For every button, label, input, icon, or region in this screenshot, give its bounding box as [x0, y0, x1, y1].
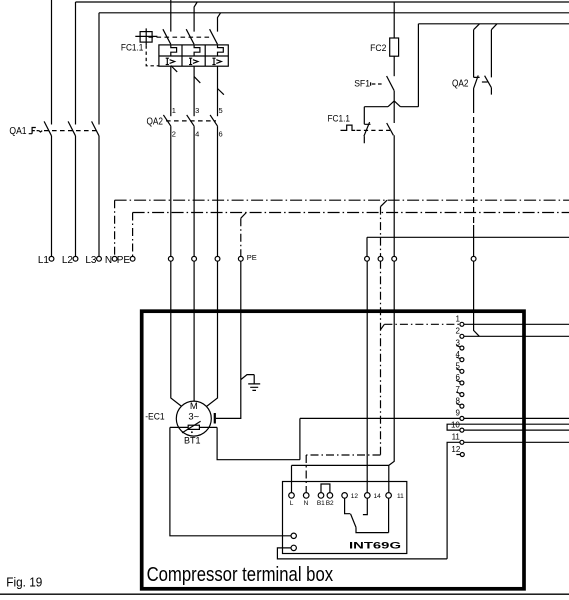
terminal PE2	[238, 256, 243, 261]
box terminal 10 loop	[447, 424, 569, 430]
svg-text:4: 4	[195, 129, 199, 138]
contactor QA2 blade 1	[163, 115, 170, 126]
bus L3 top	[99, 12, 569, 14]
wire PE drop	[132, 213, 134, 257]
svg-text:3: 3	[195, 106, 199, 115]
INT69G terminal L	[289, 493, 295, 499]
compressor terminal box outline	[142, 311, 524, 589]
box terminal numbers	[451, 315, 461, 454]
I> labels	[166, 58, 222, 64]
box terminal 2	[460, 334, 464, 338]
svg-text:-EC1: -EC1	[145, 411, 165, 422]
contactor QA2 blade 2	[187, 115, 194, 126]
INT69G terminal N	[303, 493, 309, 499]
N wire to INT69G N	[306, 454, 380, 456]
box terminal 9	[460, 416, 464, 420]
wire SF1 bottom node	[364, 24, 418, 107]
FC1.1 thermal hook 2	[194, 45, 200, 56]
terminal circles row	[49, 256, 476, 261]
svg-text:PE: PE	[117, 255, 131, 266]
svg-text:QA1: QA1	[9, 126, 26, 137]
box terminal 4	[460, 358, 464, 362]
svg-text:6: 6	[455, 373, 460, 382]
box terminal 1	[460, 322, 464, 326]
FC1.1 aux trip indicator step	[341, 125, 356, 130]
breaker FC1.1 blade 2	[186, 29, 194, 44]
terminal L1	[49, 256, 54, 261]
svg-text:4: 4	[455, 350, 460, 359]
svg-text:QA2: QA2	[452, 78, 469, 89]
svg-text:12: 12	[451, 445, 460, 454]
svg-text:2: 2	[455, 327, 460, 336]
INT69G terminal 14	[365, 493, 371, 499]
svg-text:L3: L3	[85, 255, 97, 266]
INT69G sensor input 1	[291, 533, 296, 538]
terminal PE	[130, 256, 135, 261]
QA1 mechanical link dashed	[44, 130, 97, 132]
ground symbol	[248, 384, 260, 391]
wire PE to terminal dash-dot	[240, 218, 242, 257]
contactor QA2 blade 3	[210, 115, 217, 126]
svg-text:Compressor terminal box: Compressor terminal box	[147, 564, 334, 586]
breaker FC1.1 blade 1	[163, 29, 171, 44]
terminal 14net	[365, 256, 370, 261]
wire L1 vertical	[51, 0, 53, 257]
fuse FC2	[393, 2, 395, 38]
svg-text:3: 3	[455, 338, 460, 347]
INT69G sensor loop to terminal 11	[277, 442, 460, 559]
svg-text:BT1: BT1	[184, 436, 201, 446]
svg-text:FC2: FC2	[370, 43, 386, 53]
B1-B2 bridge	[321, 484, 330, 492]
FC1.1 manual operator crossed square	[140, 32, 152, 42]
wire FC1.1 to QA2 pole2	[193, 66, 195, 116]
svg-text:QA2: QA2	[147, 116, 164, 127]
contact QA2 aux left	[474, 24, 480, 107]
QA2 dashed link	[166, 120, 216, 122]
svg-text:2: 2	[172, 129, 176, 138]
svg-text:14: 14	[374, 493, 382, 500]
FC1.1 breaker dashed link	[149, 36, 212, 38]
FC1.1 aux dashed link	[357, 129, 391, 131]
wire N dash-dot inside box	[380, 261, 382, 455]
svg-text:8: 8	[455, 396, 460, 405]
svg-text:L2: L2	[62, 255, 74, 266]
svg-text:10: 10	[451, 420, 460, 429]
ground branch	[241, 375, 254, 384]
wire PE into box	[216, 261, 241, 419]
box terminal 3	[460, 346, 464, 350]
terminal Nnet	[378, 256, 383, 261]
svg-text:7: 7	[455, 385, 460, 394]
box terminal 2 wire out	[464, 335, 569, 337]
breaker FC1.1 blade 3	[210, 29, 218, 44]
terminal 12 stub	[456, 454, 460, 456]
wire FC1.1 pole1 from top	[170, 0, 172, 32]
BT1 left wire to INT69G sensor	[170, 427, 292, 535]
wire FC1.1 to QA2 pole3	[217, 66, 219, 116]
svg-text:9: 9	[455, 409, 460, 418]
terminal N	[112, 256, 117, 261]
contact FC1.1 aux NC left	[364, 107, 371, 144]
BT1 right wire to box terminal 9	[199, 418, 460, 459]
box terminal 11	[460, 440, 464, 444]
svg-text:3~: 3~	[188, 412, 199, 423]
svg-text:L: L	[290, 500, 294, 507]
wire FC1.1-right into box to L and 11	[292, 261, 395, 493]
svg-text:FC1.1: FC1.1	[121, 42, 143, 53]
terminal L3	[97, 256, 102, 261]
svg-text:11: 11	[452, 433, 461, 442]
wire terminal14 net horizontal	[367, 237, 569, 256]
SF1 dashed link	[370, 82, 372, 85]
wire FC1.1 pole3 from bus L3	[218, 13, 221, 32]
PE branch jog to motor PE	[241, 213, 247, 219]
trip stroke pole3	[218, 89, 224, 95]
box terminal 10	[460, 428, 464, 432]
bus N dash-dot	[115, 199, 569, 201]
svg-text:5: 5	[455, 362, 460, 371]
trip stroke pole1	[171, 66, 177, 72]
svg-text:SF1: SF1	[354, 78, 370, 89]
switch QA1 pole 3 blade	[92, 121, 99, 135]
box terminal 5	[460, 369, 464, 373]
wire QA2 pole2 down	[193, 126, 195, 257]
wire FC1.1 pole2 from bus L2	[194, 2, 197, 32]
svg-text:PE: PE	[247, 253, 257, 262]
spare terminal stubs 3-8	[456, 345, 460, 405]
wire L2 motor	[193, 261, 195, 401]
box terminal 7	[460, 393, 464, 397]
svg-text:M: M	[190, 401, 198, 412]
FC1.1 operator dashed drop	[146, 45, 159, 66]
terminal U	[168, 256, 173, 261]
wire L2 vertical	[75, 2, 77, 257]
QA2 aux link dash	[482, 81, 488, 83]
bus L2 top	[76, 1, 569, 3]
wire FC1.1 to QA2 pole1	[170, 66, 172, 116]
wire L3 motor	[207, 261, 218, 407]
FC1.1 thermal hook 3	[218, 45, 224, 56]
svg-text:12: 12	[351, 493, 359, 500]
svg-text:N: N	[304, 500, 309, 507]
wire L1 motor	[171, 261, 182, 407]
terminal W	[215, 256, 220, 261]
svg-text:6: 6	[219, 129, 223, 138]
INT69G terminal 11	[386, 493, 392, 499]
FC1.1 relay box	[159, 45, 228, 66]
wire QA2 pole1 down	[170, 126, 172, 257]
motor frame bar	[214, 413, 216, 424]
thermistor BT1	[188, 425, 199, 429]
svg-text:B1: B1	[317, 500, 325, 507]
svg-text:B2: B2	[326, 500, 334, 507]
INT69G internal contact	[345, 498, 389, 533]
switch QA1 pole 2 blade	[68, 121, 75, 135]
contact FC1.1 aux NO right	[387, 101, 395, 257]
footer rule	[0, 593, 569, 595]
svg-text:FC1.1: FC1.1	[328, 113, 351, 124]
wire QA2 pole3 down	[217, 126, 219, 257]
N branch to box terminal 1	[381, 324, 385, 329]
INT69G terminal B1	[318, 493, 324, 499]
INT69G terminal B2	[327, 493, 333, 499]
QA1 operator symbol F	[29, 128, 43, 134]
box terminal 12	[460, 453, 464, 457]
INT69G labels	[290, 493, 404, 507]
svg-text:11: 11	[397, 493, 404, 500]
contact QA2 aux right	[485, 24, 497, 95]
svg-text:N: N	[105, 255, 112, 266]
motor -EC1 circle	[176, 401, 211, 436]
FC1.1 thermal hook 1	[171, 45, 177, 56]
svg-text:INT69G: INT69G	[349, 541, 401, 552]
box terminal 11 wire out	[464, 441, 569, 443]
bus control (from SF1) top right	[418, 23, 569, 25]
INT69G module box	[283, 482, 407, 554]
switch SF1 blade	[387, 76, 395, 91]
wire into box to INT69G 14	[366, 261, 368, 493]
terminal QA2aux	[471, 256, 476, 261]
wire N dash-dot down to terminal	[380, 207, 382, 257]
wire N branch jog	[381, 200, 388, 206]
svg-text:1: 1	[455, 315, 460, 324]
QA2 aux left dashed wire down	[473, 107, 475, 225]
terminal L2	[73, 256, 78, 261]
bus PE dash-dot	[133, 212, 569, 214]
wire N drop	[114, 200, 116, 257]
trip stroke pole2	[194, 77, 200, 83]
svg-text:1: 1	[172, 106, 176, 115]
wire L3 vertical	[98, 13, 100, 257]
wire QA2aux terminal down to box terminal 2	[474, 261, 480, 336]
INT69G sensor input 2	[291, 545, 296, 550]
svg-text:5: 5	[219, 106, 223, 115]
box terminal 8	[460, 404, 464, 408]
terminal V	[192, 256, 197, 261]
switch QA1 pole 1 blade	[44, 121, 51, 135]
box terminal 6	[460, 381, 464, 385]
svg-text:Fig. 19: Fig. 19	[6, 574, 42, 589]
box terminal 9 wire out	[464, 417, 569, 419]
INT69G terminal 12	[342, 493, 348, 499]
svg-text:L1: L1	[38, 255, 50, 266]
box terminal 1 wire out	[464, 323, 569, 325]
terminal Lnet	[392, 256, 397, 261]
